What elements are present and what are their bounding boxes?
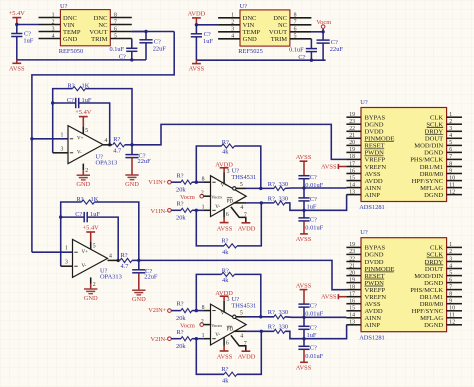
svg-text:MFLAG: MFLAG xyxy=(420,315,443,322)
wire VOUT to Vocm node xyxy=(311,31,323,33)
capacitor C? 1uF feedback buffer B xyxy=(59,211,120,262)
svg-text:17: 17 xyxy=(349,292,355,298)
pins 1-4 left stubs of REF5025 xyxy=(218,18,240,39)
pin 15 AVDD ADC no.1 xyxy=(346,175,383,185)
pin 19 PWDN ADC no.1 xyxy=(346,147,384,157)
svg-text:C?: C? xyxy=(119,54,126,61)
svg-text:C?: C? xyxy=(310,196,317,203)
wire AVSS rail under REF5025 xyxy=(196,59,325,61)
svg-text:330: 330 xyxy=(279,181,289,188)
svg-text:18: 18 xyxy=(349,284,355,290)
wire V1IN- to resistor diff amp A xyxy=(171,209,181,211)
pin 20 RESET ADC no.2 xyxy=(346,270,384,280)
svg-text:3: 3 xyxy=(65,260,68,266)
junction pin 8 feedback diff amp B xyxy=(195,309,198,312)
capacitor C? 1uF feedback buffer A xyxy=(51,97,111,146)
svg-text:11: 11 xyxy=(449,313,455,319)
pin 17 VREFN ADC no.1 xyxy=(346,161,386,171)
svg-text:2: 2 xyxy=(449,249,452,255)
resistor R? 1K feedback buffer B xyxy=(61,196,139,266)
junction VOUT/22uF xyxy=(144,30,147,33)
svg-text:DNC: DNC xyxy=(63,15,77,22)
fully-differential amp U? THS4531 triangle diff amp A xyxy=(211,176,247,217)
pin 3 DRDY ADC no.2 xyxy=(425,256,462,266)
power AVDD at pin 3 diff amp B xyxy=(215,290,233,312)
svg-text:REF5050: REF5050 xyxy=(59,48,84,55)
svg-text:R?: R? xyxy=(177,329,184,336)
svg-text:4k: 4k xyxy=(222,249,229,256)
svg-text:4: 4 xyxy=(449,133,452,139)
svg-text:20k: 20k xyxy=(176,215,186,222)
power AVSS at VREFN ADC no.1 xyxy=(321,163,346,170)
svg-text:THS4531: THS4531 xyxy=(231,302,256,309)
svg-text:V-: V- xyxy=(215,333,220,338)
svg-text:TRIM: TRIM xyxy=(91,36,108,43)
pin numbers 1,3 buffer A xyxy=(61,132,64,152)
svg-text:V+: V+ xyxy=(221,312,228,317)
svg-text:20k: 20k xyxy=(176,315,186,322)
power +5.4V supply for REF5050 xyxy=(9,10,26,25)
pins 8,7 right stubs of REF5050 xyxy=(110,18,132,25)
wire pin 5 out diff amp B xyxy=(246,316,274,318)
svg-text:Vocm: Vocm xyxy=(211,323,222,328)
pin 5 output inverted diff amp A xyxy=(233,182,246,190)
capacitor C? 22uF output of REF5025 xyxy=(317,32,344,61)
svg-text:+5.4V: +5.4V xyxy=(75,109,92,116)
svg-text:C?: C? xyxy=(154,39,161,46)
svg-text:R?: R? xyxy=(268,324,275,331)
svg-text:+5.4V: +5.4V xyxy=(9,10,26,17)
svg-text:9: 9 xyxy=(449,168,452,174)
junction pin 1 feedback diff amp B xyxy=(195,337,198,340)
svg-text:DVDD: DVDD xyxy=(365,259,384,266)
pin 11 MFLAG ADC no.2 xyxy=(420,313,462,323)
svg-text:1K: 1K xyxy=(91,196,99,203)
svg-text:330: 330 xyxy=(279,195,289,202)
svg-text:4k: 4k xyxy=(222,377,229,384)
pin 5 TRIM stub of REF5025 xyxy=(290,38,312,40)
svg-text:6: 6 xyxy=(449,147,452,153)
svg-text:22: 22 xyxy=(349,126,355,132)
wire AVDD to VIN pin 2 xyxy=(196,24,218,26)
resistor R? 4.7 output buffer B xyxy=(108,252,139,270)
svg-text:DR0/M0: DR0/M0 xyxy=(420,301,444,308)
svg-text:1: 1 xyxy=(449,242,452,248)
pin 1 CLK ADC no.1 xyxy=(430,112,462,122)
pin 6 VOUT stub of REF5050 xyxy=(110,31,132,33)
svg-text:U?: U? xyxy=(360,229,368,236)
pin 22 DVDD ADC no.1 xyxy=(346,126,383,136)
svg-text:HPF/SYNC: HPF/SYNC xyxy=(412,178,444,185)
ground GND at pin 2 buffer B xyxy=(84,277,98,302)
svg-text:AVDD: AVDD xyxy=(188,10,206,17)
wire input to pin 1 buffer B xyxy=(32,251,73,253)
capacitor C? 0.1uF on TRIM of REF5025 xyxy=(289,39,317,62)
capacitor C? 1uF differential channel 2 xyxy=(298,317,317,340)
pin 7 PHS/MCLK ADC no.2 xyxy=(410,284,462,294)
svg-text:VREFN: VREFN xyxy=(365,294,387,301)
svg-text:6: 6 xyxy=(226,340,229,346)
svg-text:DGND: DGND xyxy=(424,322,443,329)
svg-text:9: 9 xyxy=(449,299,452,305)
svg-text:1: 1 xyxy=(61,132,64,138)
svg-text:16: 16 xyxy=(349,299,355,305)
svg-text:5: 5 xyxy=(240,182,243,188)
svg-text:DGND: DGND xyxy=(365,122,384,129)
pin 4 output diff amp A xyxy=(234,203,247,211)
svg-text:23: 23 xyxy=(349,249,355,255)
pin 8 stub diff amp A xyxy=(202,177,211,183)
power AVSS below REF5025 xyxy=(189,60,205,72)
pin 23 DGND ADC no.1 xyxy=(346,119,383,129)
junction pin 8 feedback diff amp A xyxy=(195,181,198,184)
pin 3 wire buffer A xyxy=(53,152,68,154)
svg-text:1: 1 xyxy=(202,205,205,211)
power AVDD at pin 3 diff amp A xyxy=(215,161,233,183)
wire input to pin 1 buffer A xyxy=(32,138,68,140)
resistor R? 330 top output channel 1 xyxy=(268,181,288,191)
svg-text:ADS1281: ADS1281 xyxy=(359,204,385,211)
wire V2IN+ to resistor diff amp B xyxy=(171,310,181,312)
svg-text:0.1uF: 0.1uF xyxy=(109,46,124,53)
resistor R? 20k input- diff amp B xyxy=(176,329,192,350)
svg-text:R?: R? xyxy=(121,252,128,259)
wire to pin 8 diff amp A xyxy=(192,181,204,183)
svg-text:6: 6 xyxy=(226,212,229,218)
svg-text:PD: PD xyxy=(227,199,234,204)
svg-text:VIN: VIN xyxy=(63,22,75,29)
svg-text:DOUT: DOUT xyxy=(425,266,443,273)
pin 4 output diff amp B xyxy=(234,331,247,339)
svg-text:R?: R? xyxy=(221,237,228,244)
svg-text:TRIM: TRIM xyxy=(271,36,288,43)
power AVSS at VREFN ADC no.2 xyxy=(321,294,346,301)
wire to pin 8 diff amp B xyxy=(192,310,204,312)
svg-text:C?: C? xyxy=(310,325,317,332)
svg-text:AVSS: AVSS xyxy=(296,236,312,243)
svg-text:AVSS: AVSS xyxy=(189,66,205,73)
pin 9 DR0/M0 ADC no.2 xyxy=(420,299,462,309)
pin 8 DR1/M1 ADC no.1 xyxy=(420,161,462,171)
svg-text:+5.4V: +5.4V xyxy=(83,224,100,231)
port V2IN+ input diff amp B xyxy=(148,307,171,314)
svg-text:19: 19 xyxy=(349,147,355,153)
wire buffer A output to ADS1281 no.1 VREFP xyxy=(132,124,346,159)
svg-text:2: 2 xyxy=(449,119,452,125)
pin 2 SCLK ADC no.2 xyxy=(426,249,462,259)
svg-text:8: 8 xyxy=(202,305,205,311)
svg-text:4: 4 xyxy=(449,263,452,269)
svg-text:MOD/DIN: MOD/DIN xyxy=(414,143,443,150)
svg-text:TEMP: TEMP xyxy=(243,29,261,36)
svg-text:0.01uF: 0.01uF xyxy=(305,311,323,318)
pin 6 DGND ADC no.2 xyxy=(424,277,462,287)
wire pin 4 out diff amp B xyxy=(246,330,274,332)
svg-text:GND: GND xyxy=(63,36,77,43)
svg-text:DR0/M0: DR0/M0 xyxy=(420,171,444,178)
svg-text:8: 8 xyxy=(202,177,205,183)
capacitor C? 0.01uF top channel 2 xyxy=(298,302,323,319)
svg-text:CLK: CLK xyxy=(430,245,443,252)
pin 13 AINP ADC no.1 xyxy=(346,189,380,199)
svg-text:AINN: AINN xyxy=(365,185,382,192)
svg-text:1uF: 1uF xyxy=(23,38,33,45)
resistor R? 330 top output channel 2 xyxy=(268,309,288,319)
pin 12 DGND ADC no.2 xyxy=(424,320,462,330)
fully-differential amp U? THS4531 triangle diff amp B xyxy=(211,304,247,345)
svg-text:AVSS: AVSS xyxy=(365,171,381,178)
svg-text:DNC: DNC xyxy=(94,15,108,22)
svg-text:3: 3 xyxy=(61,146,64,152)
port V2IN- input diff amp B xyxy=(151,336,172,343)
wire AVSS rail under REF5050 xyxy=(17,59,146,61)
svg-text:2: 2 xyxy=(85,168,88,174)
svg-text:22uF: 22uF xyxy=(144,273,158,280)
svg-text:C?: C? xyxy=(204,31,211,38)
svg-text:4: 4 xyxy=(240,334,243,340)
svg-text:20k: 20k xyxy=(176,186,186,193)
svg-text:R?: R? xyxy=(77,196,84,203)
svg-text:BYPAS: BYPAS xyxy=(365,245,386,252)
svg-text:11: 11 xyxy=(449,182,455,188)
svg-text:PHS/MCLK: PHS/MCLK xyxy=(410,287,443,294)
svg-text:22uF: 22uF xyxy=(330,46,344,53)
svg-text:AVDD: AVDD xyxy=(365,308,383,315)
svg-text:VOUT: VOUT xyxy=(269,29,287,36)
capacitor C? 0.01uF bottom and AVSS channel 2 xyxy=(296,339,324,372)
svg-text:OPA313: OPA313 xyxy=(100,273,122,280)
svg-text:R?: R? xyxy=(222,139,229,146)
svg-text:22: 22 xyxy=(349,256,355,262)
wire to AINN channel 1 xyxy=(285,187,347,189)
svg-text:GND: GND xyxy=(84,295,98,302)
svg-text:V+: V+ xyxy=(77,136,84,141)
pin 1 CLK ADC no.2 xyxy=(430,242,462,252)
junction at AVDD/C input cap xyxy=(195,23,198,26)
pin 14 AINN ADC no.2 xyxy=(346,313,381,323)
label U? OPA313 buffer A xyxy=(96,154,118,167)
svg-text:5: 5 xyxy=(449,140,452,146)
power AVDD at pin 7 PD diff amp A xyxy=(231,207,256,232)
svg-text:AVSS: AVSS xyxy=(365,301,381,308)
capacitor C? 1uF input bypass of REF5025 xyxy=(191,25,214,60)
pin 10 HPF/SYNC ADC no.1 xyxy=(412,175,462,185)
svg-text:R?: R? xyxy=(68,82,75,89)
svg-text:C?: C? xyxy=(310,174,317,181)
svg-text:DR1/M1: DR1/M1 xyxy=(420,164,443,171)
pin 16 AVSS ADC no.1 xyxy=(346,168,380,178)
pin 13 AINP ADC no.2 xyxy=(346,320,380,330)
label U? THS4531 diff amp A xyxy=(231,168,256,181)
svg-text:4.7: 4.7 xyxy=(113,148,122,155)
svg-text:R?: R? xyxy=(222,267,229,274)
svg-text:GND: GND xyxy=(125,181,139,188)
svg-text:U?: U? xyxy=(240,3,248,10)
svg-text:7: 7 xyxy=(449,154,452,160)
pin 11 MFLAG ADC no.1 xyxy=(420,182,462,192)
pins 8,7 right stubs of REF5025 xyxy=(290,18,312,25)
svg-text:V2IN-: V2IN- xyxy=(151,336,168,343)
svg-text:5: 5 xyxy=(240,311,243,317)
svg-text:GND: GND xyxy=(132,296,146,303)
resistor R? 1K feedback buffer A xyxy=(53,82,132,152)
resistor R? 4.7 output buffer A xyxy=(103,136,132,154)
svg-text:V-: V- xyxy=(77,151,82,156)
pin 6 VOUT stub of REF5025 xyxy=(290,31,312,33)
pin 21 PINMODE ADC no.1 xyxy=(346,133,394,143)
power AVSS top of filter channel 1 xyxy=(296,154,312,176)
pin 8 stub diff amp B xyxy=(202,305,211,311)
svg-text:R?: R? xyxy=(268,181,275,188)
svg-text:VIN: VIN xyxy=(243,22,255,29)
svg-text:1uF: 1uF xyxy=(307,204,317,211)
pin numbers 1,3 buffer B xyxy=(65,246,68,266)
svg-text:12: 12 xyxy=(449,320,455,326)
svg-text:2: 2 xyxy=(201,191,204,197)
svg-text:4: 4 xyxy=(105,138,108,144)
pin 1 stub diff amp A xyxy=(202,205,211,211)
junction output buffer A xyxy=(130,143,133,146)
svg-text:AVDD: AVDD xyxy=(238,225,256,232)
resistor R? 4k top feedback diff amp A xyxy=(196,139,262,190)
svg-text:R?: R? xyxy=(177,200,184,207)
wire to AINP with jog channel 2 xyxy=(285,325,347,339)
pin 10 HPF/SYNC ADC no.2 xyxy=(412,306,462,316)
IC U? REF5050 voltage reference xyxy=(52,3,117,55)
power AVSS at pin 6 diff amp B xyxy=(217,337,233,361)
svg-text:20: 20 xyxy=(349,140,355,146)
svg-text:BYPAS: BYPAS xyxy=(365,115,386,122)
svg-text:0.01uF: 0.01uF xyxy=(305,182,323,189)
resistor R? 4k bottom feedback diff amp A xyxy=(196,201,263,256)
svg-text:CLK: CLK xyxy=(430,115,443,122)
wire V2IN- to resistor diff amp B xyxy=(171,338,181,340)
resistor R? 4k bottom feedback diff amp B xyxy=(196,330,263,385)
svg-text:C?: C? xyxy=(310,216,317,223)
svg-text:C?: C? xyxy=(298,54,305,61)
power +5.4V at pin 5 buffer B xyxy=(83,224,100,249)
svg-text:VREFP: VREFP xyxy=(365,157,386,164)
resistor R? 4k top feedback diff amp B xyxy=(196,267,262,318)
pin 18 VREFP ADC no.2 xyxy=(346,284,385,294)
svg-text:22uF: 22uF xyxy=(138,158,152,165)
svg-text:21: 21 xyxy=(349,263,355,269)
wire to AINP with jog channel 1 xyxy=(285,195,347,211)
pin 8 DR1/M1 ADC no.2 xyxy=(420,292,462,302)
svg-text:PD: PD xyxy=(227,328,234,333)
svg-text:MOD/DIN: MOD/DIN xyxy=(414,273,443,280)
svg-text:GND: GND xyxy=(243,36,257,43)
svg-text:0.1uF: 0.1uF xyxy=(289,47,304,54)
wire buffer B output to ADS1281 no.2 VREFP xyxy=(139,260,347,289)
pin 5 MOD/DIN ADC no.1 xyxy=(414,140,462,150)
svg-text:22uF: 22uF xyxy=(153,46,167,53)
svg-text:Vocm: Vocm xyxy=(211,194,222,199)
pin 5 output inverted diff amp B xyxy=(233,311,246,319)
svg-text:R?: R? xyxy=(268,195,275,202)
svg-text:7: 7 xyxy=(449,284,452,290)
svg-text:R?: R? xyxy=(177,301,184,308)
svg-text:DGND: DGND xyxy=(424,280,443,287)
pin 19 BYPAS ADC no.1 xyxy=(346,112,385,122)
svg-text:5: 5 xyxy=(93,244,96,250)
pin 15 AVDD ADC no.2 xyxy=(346,306,383,316)
svg-text:TEMP: TEMP xyxy=(63,29,81,36)
svg-text:14: 14 xyxy=(349,313,355,319)
power +5.4V at pin 5 buffer A xyxy=(75,109,92,134)
wire +5.4V to VIN pin 2 xyxy=(17,24,39,26)
svg-text:R?: R? xyxy=(221,366,228,373)
pin 6 DGND ADC no.1 xyxy=(424,147,462,157)
resistor R? 20k input- diff amp A xyxy=(176,200,192,221)
svg-text:4k: 4k xyxy=(222,277,229,284)
svg-text:330: 330 xyxy=(279,324,289,331)
svg-text:3: 3 xyxy=(227,297,230,303)
pin 22 DVDD ADC no.2 xyxy=(346,256,383,266)
svg-text:7: 7 xyxy=(244,212,247,218)
pin 23 DGND ADC no.2 xyxy=(346,249,383,259)
svg-text:VOUT: VOUT xyxy=(89,29,107,36)
svg-text:15: 15 xyxy=(349,306,355,312)
capacitor C? 22uF and ground buffer B xyxy=(132,260,158,303)
svg-text:7: 7 xyxy=(244,341,247,347)
IC U? REF5025 voltage reference xyxy=(231,3,296,55)
svg-text:15: 15 xyxy=(349,175,355,181)
IC U? ADS1281 ADC no.1 body xyxy=(359,99,446,211)
IC U? ADS1281 ADC no.2 body xyxy=(359,229,446,341)
svg-text:V2IN+: V2IN+ xyxy=(148,307,167,314)
svg-text:12: 12 xyxy=(449,189,455,195)
power AVDD at pin 7 PD diff amp B xyxy=(231,335,256,360)
pin 3 DRDY ADC no.1 xyxy=(425,126,462,136)
wire REF5050 VOUT right xyxy=(132,31,174,33)
pin 4 DOUT ADC no.2 xyxy=(425,263,462,273)
power AVSS at pin 6 diff amp A xyxy=(217,209,233,233)
svg-text:AINP: AINP xyxy=(365,322,381,329)
svg-text:8: 8 xyxy=(449,161,452,167)
svg-text:C?: C? xyxy=(75,211,82,218)
svg-text:OPA313: OPA313 xyxy=(96,160,118,167)
pin 5 TRIM stub of REF5050 xyxy=(110,38,132,40)
svg-text:330: 330 xyxy=(279,309,289,316)
svg-text:17: 17 xyxy=(349,161,355,167)
ground GND at pin 2 buffer A xyxy=(76,164,90,189)
svg-text:13: 13 xyxy=(349,320,355,326)
svg-text:AINP: AINP xyxy=(365,192,381,199)
svg-text:R?: R? xyxy=(113,136,120,143)
svg-text:C?: C? xyxy=(67,97,74,104)
svg-text:1uF: 1uF xyxy=(203,38,213,45)
svg-text:AVSS: AVSS xyxy=(321,163,337,170)
svg-text:NC: NC xyxy=(98,22,107,29)
svg-text:16: 16 xyxy=(349,168,355,174)
pin 21 PINMODE ADC no.2 xyxy=(346,263,394,273)
svg-text:4k: 4k xyxy=(222,149,229,156)
junction VREF input buffer A xyxy=(30,137,33,140)
port Vocm diff amp A xyxy=(180,194,204,201)
svg-text:DNC: DNC xyxy=(243,15,257,22)
svg-text:AVSS: AVSS xyxy=(296,364,312,371)
wire pin 5 out diff amp A xyxy=(246,187,274,189)
wire to pin 1 diff amp B xyxy=(192,338,204,340)
svg-text:REF5025: REF5025 xyxy=(238,48,263,55)
pin 19 PWDN ADC no.2 xyxy=(346,277,384,287)
wire V1IN+ to resistor diff amp A xyxy=(171,181,181,183)
svg-text:10: 10 xyxy=(449,306,455,312)
pin 2 stub diff amp A xyxy=(201,191,211,197)
resistor R? 20k input+ diff amp A xyxy=(176,172,192,193)
pin 14 AINN ADC no.1 xyxy=(346,182,381,192)
